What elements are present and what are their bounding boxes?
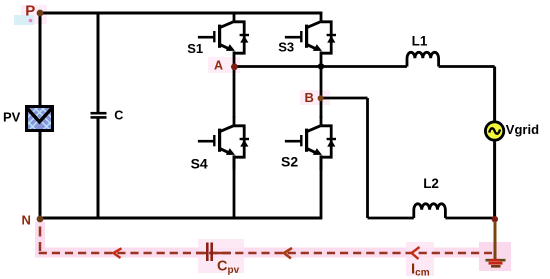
node P <box>37 10 44 17</box>
node B <box>318 95 324 101</box>
wire top rail P <box>40 12 322 15</box>
wire node A to S4 collector <box>233 66 236 118</box>
AC source Vgrid <box>485 122 503 140</box>
node ground junction <box>492 216 498 222</box>
wire node A to L1 <box>234 65 407 68</box>
wire to L2 <box>368 217 414 220</box>
transistor S3 <box>285 12 336 66</box>
solar panel PV <box>20 107 59 135</box>
capacitor Cpv <box>207 243 211 262</box>
wire node B right vertical down <box>366 98 369 218</box>
junction S3 emitter node <box>318 63 324 69</box>
svg-text:L1: L1 <box>412 33 428 48</box>
wire left vertical lower (PV to N) <box>39 131 42 219</box>
wire S4 emitter to bottom rail <box>233 155 236 218</box>
svg-text:S4: S4 <box>191 155 208 171</box>
svg-text:S1: S1 <box>187 41 203 56</box>
pink highlight band along dashed line <box>35 248 495 258</box>
svg-text:P: P <box>25 2 35 19</box>
arrow Icm middle <box>284 248 292 259</box>
inductor L1 <box>407 52 439 66</box>
wire common-mode dashed vertical at N <box>39 227 42 252</box>
svg-text:Vgrid: Vgrid <box>506 122 539 137</box>
capacitor C <box>91 113 107 117</box>
wire L1 to right vertical <box>439 65 495 68</box>
transistor S2 <box>285 116 336 170</box>
svg-text:C: C <box>114 108 123 122</box>
wire capacitor C top lead <box>97 13 100 113</box>
ground symbol <box>486 260 506 266</box>
svg-text:A: A <box>214 59 223 73</box>
node A <box>231 63 238 70</box>
wire node B horizontal <box>321 97 368 100</box>
svg-text:L2: L2 <box>423 176 439 191</box>
wire ground stem <box>494 221 497 259</box>
wire Vgrid to ground junction <box>493 141 496 219</box>
svg-text:B: B <box>305 90 314 105</box>
wire S2 emitter to bottom rail <box>320 155 323 218</box>
transistor S4 <box>198 116 249 170</box>
wire common-mode dashed horizontal <box>39 252 492 255</box>
capacitor Cpv leads <box>197 252 231 255</box>
wire right vertical to Vgrid <box>493 67 496 122</box>
wire S3 emitter through node B to S2 collector <box>320 66 323 118</box>
svg-text:S3: S3 <box>278 39 294 54</box>
arrow Icm left 1 <box>114 248 122 258</box>
wire left vertical upper (P to PV) <box>39 13 42 106</box>
arrow Icm right <box>412 247 420 259</box>
inductor L2 <box>414 204 446 218</box>
node N <box>37 216 44 223</box>
svg-text:PV: PV <box>3 110 21 125</box>
transistor S1 <box>198 12 249 66</box>
svg-text:S2: S2 <box>281 154 298 170</box>
wire capacitor C bottom lead <box>97 118 100 219</box>
wire bottom rail N <box>40 217 322 220</box>
wire L2 to ground junction <box>445 217 494 220</box>
svg-text:N: N <box>22 212 31 227</box>
